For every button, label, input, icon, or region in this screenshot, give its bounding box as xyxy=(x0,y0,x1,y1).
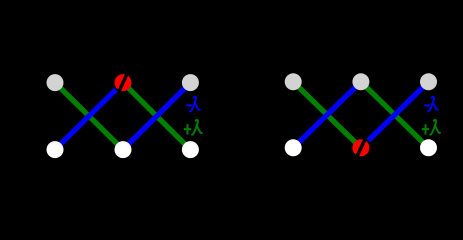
edge: blue line bottom-center node to top-right node (left diagram, -λ hop) xyxy=(123,83,190,150)
node: bottom-right white site (left diagram) xyxy=(182,141,199,158)
label: λ of -λ, blue (left diagram) xyxy=(190,97,200,112)
label: plus sign of +λ, green (right diagram) xyxy=(422,124,429,134)
edge: green line top-left node to bottom-center node (left diagram) xyxy=(55,83,123,150)
edge: green line top-center node to bottom-right node (right diagram, +λ hop) xyxy=(361,82,429,148)
label: λ of +λ, green (right diagram) xyxy=(430,120,440,135)
node: top-center forbidden red site (left diagram) xyxy=(115,74,132,91)
node: top-left gray site (right diagram) xyxy=(285,73,302,90)
node: bottom-center forbidden red site (right diagram) xyxy=(352,139,369,156)
edge: blue line bottom-left node to top-center node (right diagram) xyxy=(293,82,361,148)
node: top-right gray site (left diagram) xyxy=(182,74,199,91)
node: bottom-right white site (right diagram) xyxy=(420,139,437,156)
label: plus sign of +λ, green (left diagram) xyxy=(184,124,191,134)
node: top-left gray site (left diagram) xyxy=(47,74,64,91)
label: λ of -λ, blue (right diagram) xyxy=(428,97,438,112)
node: bottom-center white site (left diagram) xyxy=(115,141,132,158)
label: minus sign of -λ, blue (right diagram) xyxy=(424,105,430,107)
node: bottom-left white site (right diagram) xyxy=(285,139,302,156)
edge: green line top-center node to bottom-right node (left diagram, +λ hop) xyxy=(123,83,190,150)
node: top-center gray site (right diagram) xyxy=(352,73,369,90)
label: λ of +λ, green (left diagram) xyxy=(192,120,202,135)
label: minus sign of -λ, blue (left diagram) xyxy=(186,105,192,107)
node: top-right gray site (right diagram) xyxy=(420,73,437,90)
edge: green line top-left node to bottom-center node (right diagram) xyxy=(293,82,361,148)
edge: blue line bottom-center node to top-right node, cut short by forbidden slash (right diagram, -λ hop) xyxy=(368,82,428,141)
slash: forbidden marker over top-center red node (left diagram) xyxy=(119,75,126,91)
edge: blue line bottom-left node to top-center node, cut short by forbidden slash (left diagram) xyxy=(55,90,116,150)
node: bottom-left white site (left diagram) xyxy=(47,141,64,158)
slash: forbidden marker over bottom-center red node (right diagram) xyxy=(357,140,364,156)
